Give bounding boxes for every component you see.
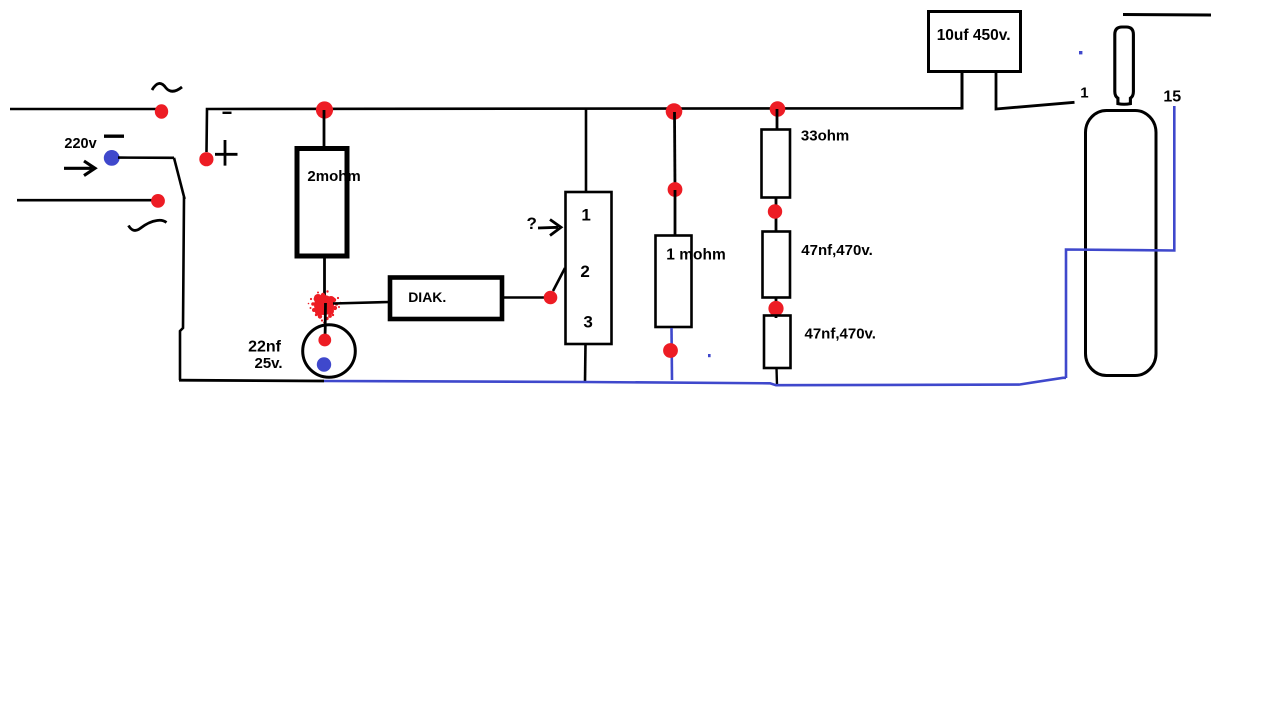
- arrow to selector: [538, 220, 561, 236]
- wire: C2 bottom lead: [775, 368, 778, 385]
- node: bus junction A (red): [316, 101, 333, 118]
- node: C4 plus (red): [318, 334, 331, 347]
- wire: left vertical down to ground bus: [180, 197, 184, 380]
- AC tilde top: [152, 83, 182, 91]
- blue speck right of R2 drop: [708, 354, 711, 357]
- stray pen dash below bus corner: [223, 112, 232, 114]
- plus sign: [215, 140, 238, 166]
- node: line N terminal (red): [151, 194, 165, 208]
- wire: bus junction C down: [673, 112, 676, 189]
- svg-text:47nf,470v.: 47nf,470v.: [805, 326, 876, 343]
- node: C4 minus (blue): [317, 357, 331, 371]
- selector lever: [553, 268, 565, 291]
- capacitor C2 47nf,470v: [764, 316, 791, 369]
- node: mid lead (red): [668, 182, 683, 197]
- wire: R3 to C1: [775, 198, 778, 232]
- wire: AC line N bottom-left: [17, 199, 158, 202]
- wire: pin 15 blue drop and return: [1066, 106, 1174, 378]
- wire: DIAK to wiper node: [504, 296, 546, 299]
- resistor R1 2mohm: [297, 149, 347, 257]
- switch SW1 lever: [174, 158, 185, 199]
- wire: switch pole lead: [118, 156, 174, 159]
- svg-text:2: 2: [580, 262, 589, 281]
- wire: bus to selector top: [585, 109, 588, 192]
- svg-text:1 mohm: 1 mohm: [666, 247, 725, 264]
- resistor R3 33ohm: [762, 130, 791, 198]
- tube (fluorescent lamp): [1086, 111, 1157, 376]
- node: between R3 and C1 (red): [768, 204, 782, 218]
- wire: top right stub: [1123, 13, 1211, 17]
- wire: stub inside C4: [324, 325, 327, 337]
- node: bus junction C (red): [666, 103, 683, 120]
- wire: AC line L top-left: [10, 108, 158, 111]
- wire: node B to DIAK: [333, 302, 390, 304]
- wire: mid lead to R2: [674, 190, 677, 236]
- capacitor C3 10uf 450v box: [929, 12, 1021, 72]
- svg-text:3: 3: [583, 313, 592, 332]
- node: bus junction D (red): [770, 101, 786, 117]
- svg-text:10uf 450v.: 10uf 450v.: [937, 27, 1011, 44]
- wire: C1 to C2: [775, 298, 778, 319]
- wire: selector bottom to ground bus: [584, 344, 587, 382]
- wire: R1 bottom to node B: [323, 256, 326, 303]
- ground bus black part: [179, 379, 324, 383]
- node: line L terminal (red): [155, 104, 168, 118]
- node B (red splatter): [308, 290, 342, 323]
- wire: node B into capacitor C4: [324, 303, 327, 336]
- node: switch pole (blue): [104, 150, 120, 166]
- capacitor C4 22nf 25v (circle): [303, 325, 356, 378]
- resistor R2 1mohm: [656, 236, 692, 328]
- svg-text:22nf: 22nf: [248, 339, 282, 356]
- minus sign: [104, 134, 124, 137]
- wire: R2 bottom blue drop: [670, 328, 673, 380]
- arrow at 220v: [64, 161, 95, 176]
- svg-text:47nf,470v.: 47nf,470v.: [801, 242, 872, 259]
- diac D1 box: [390, 278, 502, 320]
- ground bus blue part: [324, 378, 1066, 385]
- wire: bus to R1 top: [323, 110, 326, 147]
- node: between C1 and C2 (red): [768, 301, 783, 316]
- starter capsule: [1115, 27, 1134, 104]
- svg-text:1: 1: [581, 205, 590, 224]
- svg-text:2mohm: 2mohm: [307, 168, 360, 185]
- wire: top bus with left drop: [207, 108, 963, 152]
- svg-text:33ohm: 33ohm: [801, 127, 849, 144]
- svg-text:15: 15: [1163, 88, 1181, 105]
- node: selector wiper (red): [544, 291, 558, 305]
- wire: C3 left lead: [961, 73, 964, 110]
- wire: C3 right lead to tube pin 1: [996, 73, 1075, 109]
- svg-text:25v.: 25v.: [255, 355, 283, 372]
- blue speck near pin 1: [1079, 51, 1082, 54]
- svg-text:DIAK.: DIAK.: [408, 289, 446, 305]
- svg-text:1: 1: [1080, 85, 1088, 102]
- capacitor C1 47nf,470v: [763, 232, 791, 298]
- node: plus terminal (red): [199, 152, 213, 166]
- node: below R2 (red): [663, 343, 678, 358]
- svg-text:220v: 220v: [64, 136, 96, 152]
- selector S1 box: [566, 192, 612, 344]
- AC tilde bottom: [129, 220, 167, 230]
- wire: bus junction D to R3: [776, 109, 779, 129]
- svg-text:?: ?: [527, 214, 537, 233]
